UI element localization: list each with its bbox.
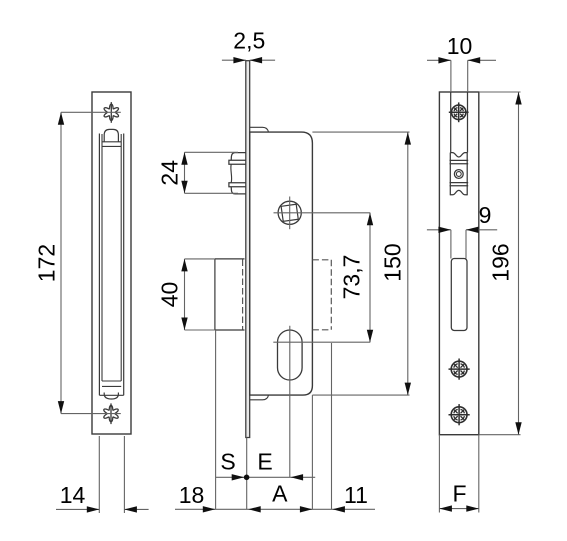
svg-text:18: 18 [179,482,205,508]
svg-text:S: S [220,449,235,475]
svg-text:9: 9 [479,202,492,228]
svg-text:40: 40 [157,282,183,308]
svg-text:14: 14 [60,482,86,508]
svg-text:172: 172 [34,244,60,282]
svg-text:A: A [272,481,288,507]
svg-text:2,5: 2,5 [233,28,265,54]
svg-text:196: 196 [488,243,514,281]
svg-text:E: E [257,449,272,475]
svg-text:11: 11 [344,482,368,508]
svg-text:24: 24 [157,160,183,186]
svg-text:F: F [452,480,466,506]
svg-text:10: 10 [447,33,473,59]
svg-text:150: 150 [380,243,406,281]
svg-text:73,7: 73,7 [339,255,365,300]
